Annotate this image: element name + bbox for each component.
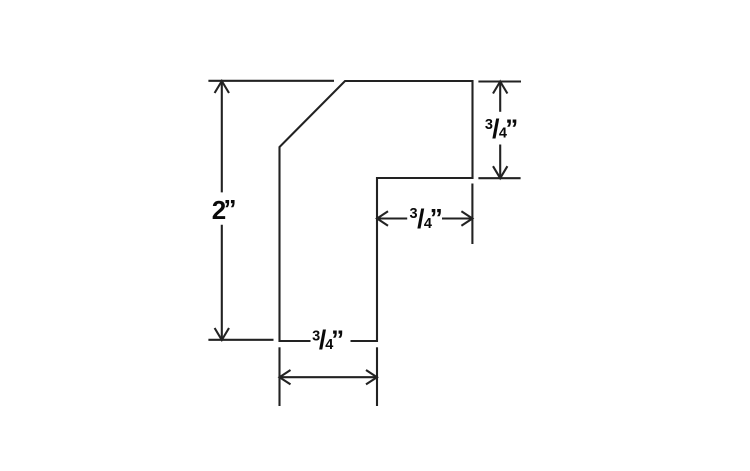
dimension 3/4in bottom: dimension line: [280, 376, 378, 378]
dimension 3/4in middle: right extension line: [471, 184, 473, 245]
dimension 2in: dimension line upper segment: [221, 81, 223, 192]
dimension 3/4in middle: dimension line left segment: [377, 217, 407, 219]
dimension 3/4in bottom: arrowhead right: [366, 370, 377, 384]
dimension 3/4in right: dimension line upper segment: [499, 82, 501, 112]
dimension 3/4in middle: arrowhead right: [461, 211, 472, 225]
dimension 3/4in middle: arrowhead left: [377, 211, 388, 225]
dimension 3/4in right: dimension line lower segment: [499, 145, 501, 179]
dimension 3/4in bottom: right extension line: [376, 347, 378, 406]
svg-text:”: ”: [430, 203, 443, 233]
dimension 2in: bottom extension line: [208, 339, 273, 341]
dimension 3/4in right: arrowhead up: [493, 82, 507, 94]
dimension 2in: top extension line: [208, 80, 334, 82]
dimension 3/4in bottom: arrowhead left: [280, 370, 291, 384]
dimension 3/4in right: bottom extension line: [478, 177, 520, 179]
dimension 3/4in bottom: left extension line: [278, 347, 280, 406]
svg-text:”: ”: [224, 194, 237, 224]
dimension 3/4in right: top extension line: [478, 80, 521, 82]
label 2 inch: [212, 194, 237, 225]
dimension 2in: arrowhead down: [215, 328, 229, 340]
label 3/4 inch right: [485, 113, 518, 144]
svg-text:”: ”: [505, 113, 518, 143]
svg-text:”: ”: [331, 325, 344, 355]
dimension 2in: arrowhead up: [215, 81, 229, 93]
dimension 3/4in middle: dimension line right segment: [442, 217, 472, 219]
molding profile outline (L-shape with chamfered top-left corner): [280, 81, 473, 341]
dimension 3/4in right: arrowhead down: [493, 166, 507, 178]
label 3/4 inch middle: [410, 203, 443, 234]
label 3/4 inch bottom: [312, 325, 344, 355]
dimension 2in: dimension line lower segment: [221, 225, 223, 340]
